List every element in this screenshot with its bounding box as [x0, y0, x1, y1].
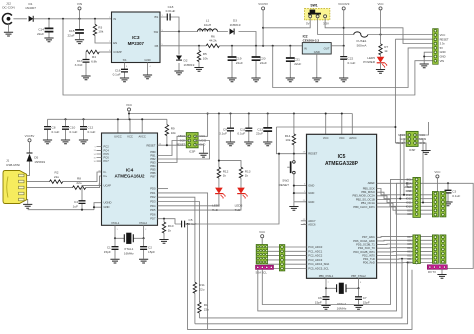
- wire TX bus: [199, 259, 402, 318]
- svg-text:PB6_XTAL1: PB6_XTAL1: [319, 274, 334, 278]
- svg-text:PC4: PC4: [104, 148, 110, 152]
- resistor R10: [162, 219, 173, 239]
- connector J12 DC-CON: [2, 2, 14, 25]
- svg-text:15pF: 15pF: [148, 250, 155, 254]
- ground C15: [75, 40, 84, 44]
- resistor R9: [165, 119, 176, 145]
- svg-text:PB2_SS_OC1B: PB2_SS_OC1B: [356, 197, 375, 201]
- svg-text:6.8k: 6.8k: [91, 59, 97, 63]
- capacitor C20: [252, 46, 267, 78]
- svg-text:PD0: PD0: [150, 187, 156, 191]
- svg-text:PB4_MISO: PB4_MISO: [361, 190, 374, 194]
- diode D3 1N5819: [230, 19, 241, 35]
- svg-text:ATMEGA328P: ATMEGA328P: [325, 161, 359, 167]
- svg-text:PC7: PC7: [104, 159, 110, 163]
- svg-text:PB6: PB6: [150, 171, 156, 175]
- svg-text:10k: 10k: [285, 138, 290, 142]
- ground C6: [321, 306, 330, 310]
- wire 16U2 PD1 to bus: [158, 193, 208, 330]
- svg-text:SW1: SW1: [310, 3, 317, 7]
- svg-text:SS: SS: [123, 58, 127, 62]
- wire AREF net: [377, 183, 474, 268]
- svg-text:GND: GND: [144, 58, 150, 62]
- ground C19: [227, 78, 236, 82]
- svg-text:PC2: PC2: [104, 145, 110, 149]
- capacitor C5: [182, 218, 197, 228]
- ground C14: [44, 38, 53, 42]
- inductor L1 10uH: [198, 19, 218, 32]
- wire FB / 5V rail: [160, 45, 302, 47]
- svg-text:IC5: IC5: [338, 154, 346, 160]
- svg-text:IO10: IO10: [406, 204, 412, 208]
- ground C8: [43, 140, 52, 144]
- svg-text:22uF: 22uF: [294, 62, 301, 66]
- svg-text:IO1: IO1: [407, 257, 412, 261]
- svg-text:22o: 22o: [204, 307, 209, 311]
- svg-text:PC5: PC5: [104, 152, 110, 156]
- svg-text:PD0_RxD: PD0_RxD: [363, 261, 375, 265]
- ground C3: [443, 202, 452, 206]
- svg-text:10uH: 10uH: [204, 23, 211, 27]
- node VCC (stack headers): [434, 170, 440, 192]
- resistor R8 22R: [73, 177, 86, 190]
- svg-text:PC2_ADC2: PC2_ADC2: [308, 254, 322, 258]
- capacitor C15: [67, 19, 83, 40]
- wire ICSP2 MISO: [400, 135, 409, 199]
- svg-text:16MHz: 16MHz: [337, 306, 347, 310]
- svg-text:UVCC: UVCC: [114, 135, 122, 139]
- svg-text:XTAL2: XTAL2: [139, 221, 148, 225]
- wire SW1 common to fuse: [318, 18, 354, 35]
- svg-text:GND: GND: [308, 184, 314, 188]
- wire RX bus: [195, 263, 408, 324]
- svg-text:22uF: 22uF: [256, 132, 263, 136]
- capacitor C16: [113, 63, 128, 78]
- wire 3.3V run to header: [344, 28, 433, 44]
- connector J6 SDA/SCL row (magenta): [256, 265, 274, 274]
- wire SW node: [160, 32, 256, 46]
- svg-text:ADC7: ADC7: [308, 219, 316, 223]
- svg-text:RESET: RESET: [279, 183, 289, 187]
- svg-text:D+: D+: [104, 174, 108, 178]
- diode D5 1N5819: [27, 153, 46, 175]
- svg-text:MP2307: MP2307: [128, 41, 145, 46]
- svg-text:PD6_OC0A_AIN0: PD6_OC0A_AIN0: [353, 239, 375, 243]
- svg-text:22uF: 22uF: [67, 33, 74, 37]
- wire SDA bus: [258, 183, 413, 311]
- svg-text:15pF: 15pF: [104, 250, 111, 254]
- svg-text:44.2k: 44.2k: [209, 39, 217, 43]
- resistor R5: [197, 46, 208, 67]
- svg-text:0.1uF: 0.1uF: [70, 130, 78, 134]
- svg-text:PB5_SCK: PB5_SCK: [363, 186, 375, 190]
- svg-text:IO5: IO5: [407, 242, 412, 246]
- diode D2 1N5819: [176, 32, 195, 71]
- svg-text:0.1uF: 0.1uF: [113, 73, 121, 77]
- connector J11 stack header C: [432, 235, 438, 263]
- wire VCC cap rail (16U2): [48, 119, 167, 133]
- resistor R6: [206, 35, 219, 48]
- wire RESET net: [276, 127, 395, 154]
- svg-text:GND: GND: [440, 55, 446, 59]
- svg-text:VCC: VCC: [339, 136, 345, 140]
- svg-text:PB7_XTAL2: PB7_XTAL2: [351, 274, 366, 278]
- ground header: [420, 64, 429, 68]
- svg-text:1k: 1k: [168, 228, 172, 232]
- svg-text:5V: 5V: [440, 46, 443, 50]
- LED3 TxD: [158, 188, 248, 212]
- svg-text:22o: 22o: [199, 287, 204, 291]
- svg-text:UGND: UGND: [104, 201, 112, 205]
- svg-text:PD2_INT0: PD2_INT0: [362, 253, 375, 257]
- svg-text:TxD: TxD: [235, 208, 241, 212]
- svg-text:PD7_AIN1: PD7_AIN1: [362, 235, 375, 239]
- svg-text:VCC: VCC: [440, 33, 446, 37]
- wire analog lines A0-A5: [268, 247, 307, 269]
- svg-text:IN: IN: [113, 17, 116, 21]
- svg-text:PB3_MOSI_OC2A: PB3_MOSI_OC2A: [353, 194, 375, 198]
- connector J4 digital header 8-13: [404, 177, 420, 217]
- node VIN: [77, 2, 82, 19]
- svg-text:IO6: IO6: [407, 239, 412, 243]
- capacitor C11: [237, 114, 252, 142]
- svg-text:VCC5V: VCC5V: [25, 134, 35, 138]
- connector J8 ICSP2: [396, 131, 426, 152]
- wire VIN rail: [13, 18, 111, 20]
- wire IC2 GND: [316, 54, 318, 78]
- svg-text:PB2: PB2: [150, 157, 156, 161]
- capacitor C18: [160, 5, 179, 32]
- wire 16U2 TX to R1: [158, 202, 200, 303]
- op-amp U1 : IC3 MP2307 regulator: [109, 12, 163, 68]
- wire UGND / GND common: [28, 203, 102, 210]
- connector J7 analog stack header: [279, 245, 284, 271]
- resistor R1: [198, 302, 210, 318]
- connector J9 stack header A: [432, 192, 438, 217]
- svg-text:22uF: 22uF: [260, 61, 267, 65]
- wire ICSP1 MOSI to PB2: [158, 141, 210, 160]
- capacitor C6: [315, 288, 330, 305]
- svg-text:0.1uF: 0.1uF: [219, 132, 227, 136]
- wire USB D+ through R8: [27, 176, 102, 188]
- svg-text:IN: IN: [304, 46, 307, 50]
- wire 5V run to header (around IC2): [273, 46, 433, 88]
- svg-text:PD1_TxD: PD1_TxD: [363, 257, 375, 261]
- svg-text:IO3: IO3: [407, 250, 412, 254]
- node VCC (analog header): [259, 230, 265, 245]
- ground C13: [263, 142, 272, 146]
- ground C17: [81, 76, 90, 80]
- diode D1 1N4007: [25, 2, 36, 22]
- svg-text:PD3: PD3: [150, 200, 156, 204]
- ground C16: [120, 78, 129, 82]
- svg-text:AVCC: AVCC: [139, 135, 146, 139]
- wire ICSP2 RESET: [395, 142, 409, 144]
- ground C20: [251, 78, 260, 82]
- capacitor C21: [286, 46, 301, 78]
- svg-text:VCC: VCC: [377, 2, 383, 6]
- svg-text:SDA: SDA: [406, 181, 412, 185]
- resistor R2 22R: [50, 171, 63, 184]
- svg-text:IO4: IO4: [407, 246, 412, 250]
- connector J11 extra row (magenta): [427, 265, 447, 274]
- capacitor C19: [228, 46, 243, 78]
- resistor R4: [86, 50, 112, 63]
- capacitor C12: [80, 119, 96, 139]
- ground ICSP2: [421, 151, 430, 155]
- svg-text:10k: 10k: [171, 131, 176, 135]
- wire header GND pins: [424, 52, 433, 63]
- capacitor C3: [445, 183, 461, 201]
- svg-text:PB4: PB4: [150, 164, 156, 168]
- fuse FUSE1 500mA: [354, 32, 368, 47]
- wire ICSP1 VCC: [195, 114, 208, 137]
- resistor R7: [379, 35, 389, 57]
- svg-text:VCC: VCC: [126, 103, 132, 107]
- resistor R14: [285, 114, 296, 154]
- svg-text:PD4_XCK_T0: PD4_XCK_T0: [358, 246, 375, 250]
- svg-text:RESET: RESET: [308, 152, 317, 156]
- wire ICSP1 SCK to PB1: [158, 141, 190, 156]
- svg-text:IO9: IO9: [407, 208, 412, 212]
- capacitor C17: [75, 52, 90, 76]
- node VCC3V3: [338, 2, 350, 46]
- capacitor C14: [37, 19, 53, 38]
- wire IC5 ADC stubs: [301, 221, 307, 225]
- svg-text:GND: GND: [104, 205, 110, 209]
- svg-text:AVCC: AVCC: [349, 136, 356, 140]
- svg-text:VCC: VCC: [259, 230, 265, 234]
- svg-text:PD4: PD4: [150, 204, 156, 208]
- svg-text:PC4_ADC4_SDA: PC4_ADC4_SDA: [308, 262, 329, 266]
- wire SCL bus: [262, 179, 413, 304]
- svg-text:PD7: PD7: [150, 217, 156, 221]
- capacitor C9: [219, 114, 234, 142]
- wire ICSP1 MISO to PB3: [158, 136, 190, 162]
- svg-text:1N4007: 1N4007: [25, 6, 36, 10]
- wire DTR line with C5: [158, 154, 280, 224]
- svg-text:IO11: IO11: [406, 201, 412, 205]
- svg-text:15pF: 15pF: [363, 300, 370, 304]
- svg-text:FB: FB: [155, 44, 159, 48]
- svg-text:ATMEGA16U2: ATMEGA16U2: [115, 174, 145, 179]
- svg-text:VIN: VIN: [77, 2, 82, 6]
- svg-text:BS: BS: [154, 15, 158, 19]
- svg-text:PD1: PD1: [150, 191, 156, 195]
- wire SW1 3.3V pin: [325, 18, 344, 28]
- svg-text:15pF: 15pF: [315, 300, 322, 304]
- svg-text:POWER: POWER: [363, 60, 375, 64]
- svg-text:0.01uF: 0.01uF: [166, 9, 176, 13]
- svg-text:PB7: PB7: [150, 175, 156, 179]
- svg-text:PC6: PC6: [104, 156, 110, 160]
- svg-text:VCC5V: VCC5V: [258, 2, 268, 6]
- capacitor C8: [44, 119, 60, 139]
- svg-text:OUT: OUT: [324, 46, 330, 50]
- capacitor C7: [355, 288, 370, 305]
- wire header GND stub: [407, 190, 413, 192]
- resistor R12: [217, 167, 228, 188]
- svg-text:ICSP: ICSP: [409, 148, 415, 152]
- transistor Q2 : IC5 ATMEGA328P: [303, 134, 377, 278]
- wire 16U2 RESET to ICSP: [158, 144, 187, 146]
- wire IC2 OUT to 3.3V: [331, 45, 344, 47]
- wire 16U2 PD0 stub: [158, 188, 169, 190]
- svg-text:0.1uF: 0.1uF: [88, 130, 96, 134]
- resistor R11: [193, 282, 205, 324]
- ground SW2/IC5: [289, 207, 298, 211]
- svg-text:PB1: PB1: [150, 154, 156, 158]
- wire USB GND: [26, 199, 29, 204]
- wire IO13-IO8 nets to headers: [377, 189, 433, 215]
- connector J1 USB-MINI: [3, 159, 27, 204]
- switch SW1 (5V / 3.3V select): [305, 3, 330, 25]
- svg-text:0.1uF: 0.1uF: [348, 61, 356, 65]
- ground C7: [354, 306, 363, 310]
- ground C2: [139, 259, 148, 263]
- regulator IC2 CE6209-3.3: [302, 34, 331, 54]
- svg-text:D-: D-: [104, 170, 107, 174]
- wire J12 to ground: [8, 24, 10, 32]
- svg-text:PC1_ADC1: PC1_ADC1: [308, 249, 322, 253]
- svg-text:1k: 1k: [223, 174, 227, 178]
- wire ICSP2 GND: [415, 143, 426, 150]
- wire ICSP2 SCK: [404, 139, 409, 195]
- svg-text:UCAP: UCAP: [104, 183, 112, 187]
- svg-text:0.1uF: 0.1uF: [52, 130, 60, 134]
- wire ICSP2 VCC: [415, 122, 429, 135]
- svg-text:RESET: RESET: [176, 143, 185, 147]
- node junctions on VIN rail: [48, 18, 50, 20]
- svg-text:22o: 22o: [76, 181, 81, 185]
- connector J9 stack header B: [440, 192, 446, 217]
- svg-text:PC5_ADC5_SCL: PC5_ADC5_SCL: [308, 267, 329, 271]
- ground C21: [286, 78, 295, 82]
- svg-text:1uF: 1uF: [73, 204, 78, 208]
- svg-text:1k: 1k: [384, 49, 388, 53]
- svg-text:VCC3V3: VCC3V3: [338, 2, 350, 6]
- ground C22: [339, 78, 348, 82]
- svg-text:PD6: PD6: [150, 212, 156, 216]
- svg-text:PD3_OC2B_INT1: PD3_OC2B_INT1: [353, 250, 375, 254]
- capacitor C4: [73, 185, 102, 209]
- switch SW2 RESET: [279, 154, 296, 202]
- wire RESET run to header: [395, 39, 433, 143]
- capacitor C22: [340, 46, 355, 78]
- svg-text:3.3nF: 3.3nF: [75, 63, 83, 67]
- svg-text:PB5: PB5: [150, 168, 156, 172]
- wire LED feed from VCC: [219, 114, 241, 168]
- svg-text:10k: 10k: [98, 30, 103, 34]
- svg-text:1N5819: 1N5819: [34, 160, 45, 164]
- ground LED5: [376, 70, 385, 74]
- node VCC (16U2): [126, 103, 132, 119]
- ground C10: [61, 140, 70, 144]
- wire USB D- through R2: [27, 172, 102, 182]
- wire VIN long run to header: [63, 19, 433, 95]
- svg-text:1N5819: 1N5819: [184, 63, 195, 67]
- svg-text:3.3v: 3.3v: [440, 42, 446, 46]
- LED2 RxD: [158, 188, 226, 212]
- svg-text:1k: 1k: [245, 174, 249, 178]
- svg-text:PC0_ADC0: PC0_ADC0: [308, 245, 322, 249]
- svg-text:COMP: COMP: [113, 50, 122, 54]
- svg-text:IO13: IO13: [406, 193, 412, 197]
- svg-text:CE6209-3.3: CE6209-3.3: [303, 38, 320, 42]
- crystal XTAL1 16MHz: [114, 225, 147, 255]
- svg-text:10k: 10k: [203, 56, 208, 60]
- svg-text:PC3_ADC3: PC3_ADC3: [308, 258, 322, 262]
- wire IC5 GND pins: [294, 186, 307, 206]
- ground stack headers: [437, 275, 446, 279]
- svg-text:AREF: AREF: [368, 181, 376, 185]
- svg-text:IO8: IO8: [407, 212, 412, 216]
- ground C9: [226, 142, 235, 146]
- ground R5: [194, 68, 203, 72]
- wire stack header ground: [441, 269, 443, 274]
- svg-text:ADC6: ADC6: [308, 222, 316, 226]
- node VCC5V (USB): [25, 134, 35, 153]
- node VCC: [377, 2, 383, 35]
- svg-text:IO2: IO2: [407, 253, 412, 257]
- ground C12: [79, 140, 88, 144]
- ground J12: [4, 32, 13, 36]
- svg-text:SW: SW: [154, 30, 159, 34]
- wire 16U2 RX to R11: [158, 197, 195, 282]
- svg-text:IO7: IO7: [407, 235, 412, 239]
- ground D2: [174, 71, 183, 75]
- wire ICSP1 GND: [195, 145, 203, 153]
- ground C11: [244, 142, 253, 146]
- wire SW1 5V pin to VCC5V: [263, 18, 310, 28]
- svg-text:0.1uF: 0.1uF: [452, 194, 460, 198]
- ground R10: [159, 240, 168, 244]
- svg-text:IO0: IO0: [407, 261, 412, 265]
- resistor R13: [239, 167, 250, 188]
- connector J6 analog header block: [256, 245, 268, 265]
- svg-text:GND: GND: [308, 191, 314, 195]
- svg-text:SDA SCL: SDA SCL: [256, 271, 268, 275]
- svg-text:PD5_OC0B_T1: PD5_OC0B_T1: [356, 243, 375, 247]
- svg-text:GND: GND: [308, 200, 314, 204]
- svg-text:1N5819: 1N5819: [230, 23, 241, 27]
- svg-text:USB-MINI: USB-MINI: [6, 163, 20, 167]
- svg-text:GND: GND: [440, 50, 446, 54]
- svg-text:VCC: VCC: [127, 135, 133, 139]
- svg-text:ICSP: ICSP: [189, 149, 195, 153]
- connector J2 power header: [433, 29, 449, 65]
- wire spare bus: [188, 224, 413, 329]
- transistor Q1 : IC4 ATMEGA16U2: [102, 133, 158, 225]
- svg-text:PB1_OC1A: PB1_OC1A: [361, 201, 375, 205]
- svg-text:22uF: 22uF: [37, 32, 44, 36]
- node VCC5V: [258, 2, 268, 46]
- crystal XTAL2 16MHz: [325, 278, 362, 310]
- svg-text:VCC: VCC: [323, 136, 329, 140]
- svg-text:RX TX: RX TX: [428, 270, 436, 274]
- wire ICSP2 MOSI: [415, 139, 423, 203]
- connector J11 stack header D: [440, 235, 446, 263]
- svg-text:RESET: RESET: [440, 37, 449, 41]
- svg-text:500mA: 500mA: [357, 43, 368, 47]
- svg-text:PD5: PD5: [150, 208, 156, 212]
- svg-text:0.1uF: 0.1uF: [237, 132, 245, 136]
- pin stubs 16U2 left PC pins: [97, 147, 102, 162]
- svg-text:22uF: 22uF: [236, 61, 243, 65]
- svg-text:VCC: VCC: [434, 170, 440, 174]
- ground USB: [23, 204, 32, 208]
- svg-text:PB3: PB3: [150, 161, 156, 165]
